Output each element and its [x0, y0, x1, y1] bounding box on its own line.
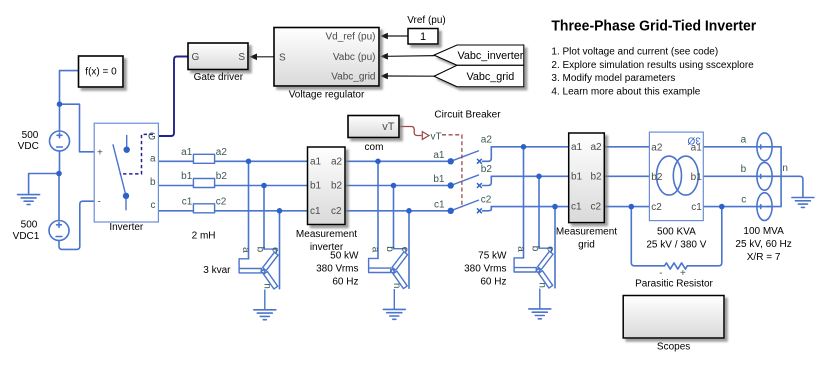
- svg-text:b1: b1: [433, 174, 445, 185]
- svg-text:G: G: [192, 52, 200, 63]
- svg-text:Vabc (pu): Vabc (pu): [333, 52, 376, 63]
- svg-text:3Ø: 3Ø: [687, 135, 701, 146]
- svg-text:-: -: [659, 268, 662, 279]
- svg-text:a2: a2: [331, 156, 343, 167]
- svg-text:100 MVA: 100 MVA: [743, 226, 784, 237]
- svg-text:S: S: [279, 52, 286, 63]
- svg-text:b1: b1: [571, 171, 583, 182]
- svg-text:grid: grid: [578, 240, 595, 251]
- svg-text:b: b: [150, 177, 156, 188]
- svg-text:a2: a2: [481, 135, 493, 146]
- svg-text:+: +: [97, 147, 103, 158]
- svg-text:n: n: [782, 163, 788, 174]
- svg-text:c2: c2: [651, 202, 662, 213]
- svg-text:Parasitic Resistor: Parasitic Resistor: [635, 279, 713, 290]
- svg-text:Measurement: Measurement: [556, 227, 617, 238]
- svg-text:b2: b2: [331, 181, 343, 192]
- svg-text:1: 1: [420, 31, 426, 43]
- svg-text:c2: c2: [216, 197, 227, 208]
- svg-text:1. Plot voltage and current (s: 1. Plot voltage and current (see code): [551, 47, 718, 58]
- svg-text:X/R = 7: X/R = 7: [747, 252, 781, 263]
- svg-text:G: G: [148, 132, 156, 143]
- svg-text:25 kV, 60 Hz: 25 kV, 60 Hz: [735, 239, 791, 250]
- svg-text:vT: vT: [431, 132, 442, 143]
- svg-text:Three-Phase Grid-Tied Inverter: Three-Phase Grid-Tied Inverter: [551, 18, 756, 35]
- svg-text:b1: b1: [310, 181, 322, 192]
- svg-text:a: a: [150, 153, 156, 164]
- svg-text:2. Explore simulation results: 2. Explore simulation results using ssce…: [551, 60, 754, 71]
- svg-text:Scopes: Scopes: [657, 342, 690, 353]
- svg-text:75 kW: 75 kW: [478, 250, 507, 261]
- svg-text:com: com: [365, 142, 384, 153]
- svg-text:Circuit Breaker: Circuit Breaker: [434, 109, 501, 120]
- svg-text:a1: a1: [433, 150, 445, 161]
- svg-text:b2: b2: [216, 171, 228, 182]
- svg-text:Measurement: Measurement: [296, 229, 357, 240]
- svg-text:c1: c1: [434, 199, 445, 210]
- svg-text:b1: b1: [181, 171, 193, 182]
- svg-text:c1: c1: [571, 202, 582, 213]
- svg-text:3 kvar: 3 kvar: [203, 265, 231, 276]
- svg-text:a: a: [741, 135, 747, 146]
- svg-text:25 kV / 380 V: 25 kV / 380 V: [646, 239, 706, 250]
- svg-text:b2: b2: [651, 172, 663, 183]
- svg-text:380 Vrms: 380 Vrms: [464, 263, 506, 274]
- svg-text:a1: a1: [571, 142, 583, 153]
- svg-text:4. Learn more about this examp: 4. Learn more about this example: [551, 86, 700, 97]
- svg-text:380 Vrms: 380 Vrms: [316, 263, 358, 274]
- svg-text:+: +: [680, 268, 686, 279]
- svg-text:c2: c2: [591, 202, 602, 213]
- svg-text:b2: b2: [481, 164, 493, 175]
- svg-text:a2: a2: [651, 142, 663, 153]
- svg-text:a1: a1: [181, 147, 193, 158]
- svg-text:c: c: [741, 194, 746, 205]
- svg-text:a1: a1: [310, 156, 322, 167]
- svg-text:b2: b2: [591, 171, 603, 182]
- svg-text:60 Hz: 60 Hz: [332, 276, 358, 287]
- svg-text:b: b: [741, 164, 747, 175]
- svg-text:VDC1: VDC1: [13, 231, 40, 242]
- svg-text:f(x) = 0: f(x) = 0: [85, 67, 117, 78]
- svg-text:Gate driver: Gate driver: [194, 72, 244, 83]
- svg-text:Vabc_grid: Vabc_grid: [331, 71, 375, 82]
- svg-text:-: -: [98, 196, 101, 207]
- svg-text:500 KVA: 500 KVA: [657, 226, 696, 237]
- svg-text:60 Hz: 60 Hz: [480, 276, 506, 287]
- svg-text:Vref (pu): Vref (pu): [407, 15, 446, 26]
- svg-text:500: 500: [21, 219, 38, 230]
- svg-text:S: S: [238, 52, 245, 63]
- svg-text:Vd_ref (pu): Vd_ref (pu): [325, 31, 375, 42]
- svg-text:Voltage regulator: Voltage regulator: [289, 90, 365, 101]
- svg-text:2 mH: 2 mH: [192, 230, 216, 241]
- svg-text:b1: b1: [691, 172, 703, 183]
- svg-text:VDC: VDC: [18, 141, 39, 152]
- svg-text:Vabc_grid: Vabc_grid: [466, 71, 514, 83]
- svg-text:c: c: [151, 200, 156, 211]
- svg-text:Vabc_inverter: Vabc_inverter: [457, 50, 523, 62]
- svg-text:c2: c2: [481, 194, 492, 205]
- svg-text:500: 500: [22, 130, 39, 141]
- svg-text:c1: c1: [182, 197, 193, 208]
- svg-text:c1: c1: [310, 206, 321, 217]
- svg-text:3. Modify model parameters: 3. Modify model parameters: [551, 73, 675, 84]
- svg-text:a2: a2: [591, 142, 603, 153]
- svg-text:c1: c1: [691, 202, 702, 213]
- svg-text:a2: a2: [216, 147, 228, 158]
- svg-text:Inverter: Inverter: [109, 222, 144, 233]
- svg-text:50 kW: 50 kW: [330, 250, 359, 261]
- svg-text:vT: vT: [382, 121, 395, 133]
- svg-text:c2: c2: [331, 206, 342, 217]
